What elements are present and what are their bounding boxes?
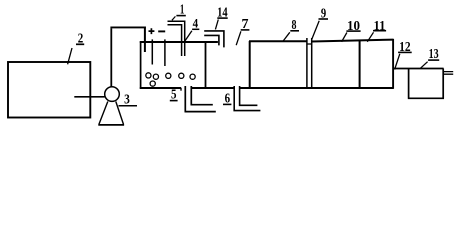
bottom edge segment 2 bbox=[191, 87, 234, 89]
tank 1 top edge bbox=[140, 41, 206, 43]
right wall tank 11 bbox=[392, 39, 394, 89]
pump P (circle) bbox=[105, 87, 120, 102]
tank 7 top edge bbox=[249, 40, 307, 42]
tank 1 left wall bbox=[140, 41, 142, 89]
pipe downcomer B bbox=[204, 31, 224, 48]
pipe downcomer A bbox=[168, 21, 185, 56]
tank 2 (raw water tank rectangle) bbox=[8, 62, 90, 118]
box 13 (clean water tank) bbox=[408, 69, 444, 99]
pump P (triangle base) bbox=[98, 124, 124, 126]
wire: pump riser pipe bbox=[110, 28, 112, 87]
wire: drop pipe into tank 1 bbox=[144, 27, 146, 53]
outlet stub bbox=[444, 72, 453, 75]
plus terminal bbox=[149, 28, 155, 34]
tank 5 top edge segment bbox=[206, 41, 218, 43]
electrode anode bbox=[151, 39, 153, 64]
minus terminal bbox=[158, 30, 165, 32]
drain pipe 5 bbox=[185, 86, 216, 112]
bottom edge segment 1 bbox=[140, 87, 181, 89]
partition weir 9 (double wall) bbox=[306, 38, 308, 89]
drain pipe 6 bbox=[233, 86, 260, 111]
tanks 10/11 top edge bbox=[312, 40, 394, 42]
wire: overhead pipe to tank 1 bbox=[110, 26, 145, 28]
wall tank5/tank7 bbox=[249, 41, 251, 89]
electrode cathode bbox=[164, 39, 166, 66]
wall tank10/tank11 bbox=[359, 40, 361, 89]
svg-text:4: 4 bbox=[193, 16, 199, 31]
wall tank1/tank5 bbox=[205, 41, 207, 89]
svg-text:11: 11 bbox=[374, 19, 386, 34]
wire: suction line tank2 to pump bbox=[74, 96, 105, 98]
wire: pipe tank11 to box13 / box13 top edge bbox=[394, 68, 444, 70]
bottom edge segment 3 bbox=[240, 87, 394, 89]
bottom edge end tick bbox=[180, 88, 182, 91]
bubbles bbox=[146, 73, 151, 78]
